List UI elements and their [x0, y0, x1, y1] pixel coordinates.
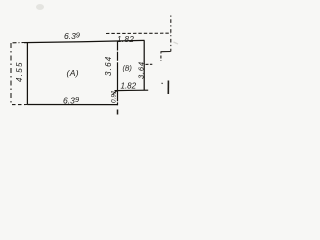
dimension 6.39 top [64, 31, 81, 41]
svg-text:6.3: 6.3 [64, 31, 76, 41]
wire: left extension dashed vertical line [10, 43, 12, 104]
svg-text:1.82: 1.82 [121, 82, 137, 91]
step dashed vertical line [160, 56, 162, 61]
step horizontal line [161, 52, 171, 54]
svg-text:3.64: 3.64 [104, 56, 113, 76]
wall between A and B with 0.91 stub [117, 42, 119, 106]
wire: top-left dash-dot to corner [13, 42, 25, 44]
wire: upper dashed extension line [106, 32, 171, 34]
svg-text:6.3: 6.3 [63, 96, 75, 106]
wire: bottom-left dashed to corner [12, 104, 27, 106]
dashed tick right of B wall [146, 63, 153, 65]
tick below bottom-right corner of A [117, 110, 119, 115]
paper background [0, 0, 201, 142]
svg-text:1.82: 1.82 [117, 35, 134, 44]
dot left of pencil stroke [162, 82, 163, 85]
faint smudge right of step [174, 42, 179, 44]
svg-text:(B): (B) [123, 66, 132, 73]
dimension 6.39 bottom [63, 95, 80, 105]
room B bottom wall [115, 89, 149, 91]
room A left wall [26, 42, 28, 104]
svg-text:(A): (A) [67, 68, 80, 78]
pencil stroke lower right [167, 81, 169, 95]
faint smudge top-left [36, 4, 44, 10]
floor-plan sketch [0, 0, 201, 142]
wire: right dashed vertical line [170, 16, 172, 52]
svg-text:4.55: 4.55 [15, 61, 24, 82]
room A top wall [24, 40, 145, 42]
svg-text:0.91: 0.91 [111, 90, 118, 103]
room A bottom wall [27, 104, 118, 106]
room B right wall [143, 40, 145, 90]
svg-text:3.64: 3.64 [137, 61, 146, 79]
tick at B bottom-left corner [112, 91, 116, 95]
